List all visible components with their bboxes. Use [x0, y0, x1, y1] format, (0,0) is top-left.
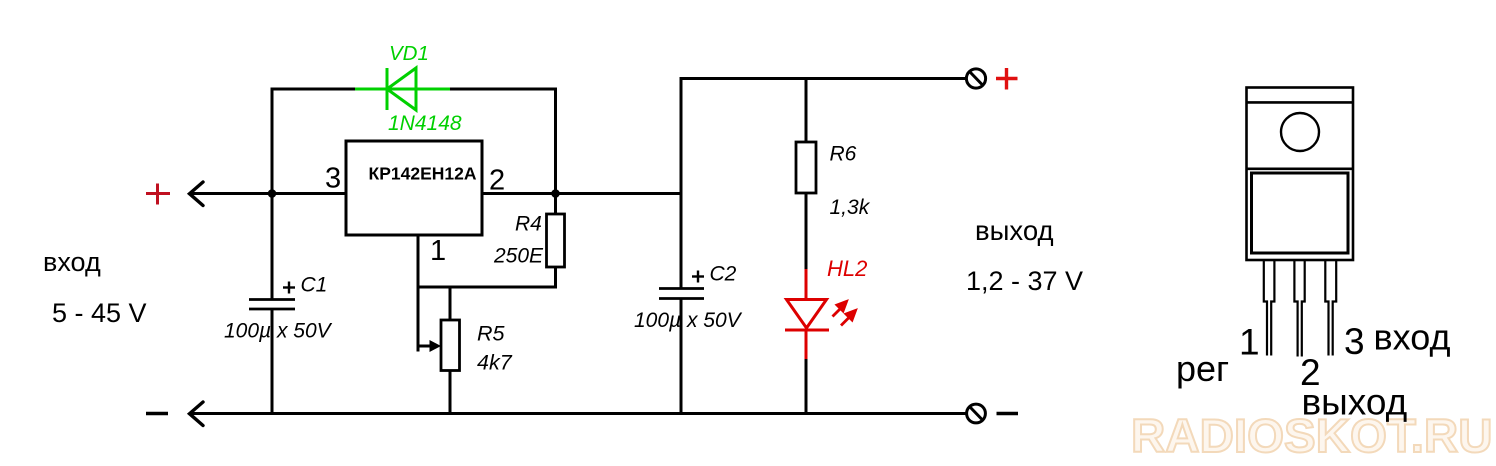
svg-text:R6: R6: [830, 143, 857, 166]
wire: R5 top lead: [449, 287, 452, 321]
wire: adjust rail horizontal: [418, 286, 557, 289]
wire: pin 1 drop: [417, 235, 420, 352]
LED HL2: [785, 300, 829, 331]
capacitor C1: [249, 300, 295, 310]
TO-220 package outline: [1247, 88, 1354, 261]
svg-text:100µ x 50V: 100µ x 50V: [224, 320, 333, 343]
output minus sign: [997, 412, 1019, 415]
wire: input arrow: [190, 182, 204, 206]
wire: diode top rail right segment: [450, 88, 557, 91]
svg-text:КР142ЕН12А: КР142ЕН12А: [369, 164, 477, 184]
svg-text:выход: выход: [975, 215, 1054, 246]
LED HL2 anode lead: [805, 269, 808, 299]
wire: junction to R4: [554, 194, 557, 216]
svg-text:3: 3: [325, 163, 341, 195]
TO-220 leg 1: [1264, 260, 1275, 356]
wire: R6 bottom lead: [805, 193, 808, 270]
TO-220 body inner rect: [1252, 173, 1349, 253]
TO-220 leg 3: [1325, 260, 1336, 356]
C2 polarity plus: [692, 271, 704, 283]
svg-text:2: 2: [489, 165, 505, 197]
node A junction dot left: [268, 189, 277, 198]
wire: pin 2 rail to C2: [482, 192, 681, 195]
svg-text:1N4148: 1N4148: [388, 112, 462, 135]
wire: bottom rail: [190, 412, 967, 415]
node: input plus terminal: [146, 184, 170, 205]
svg-text:HL2: HL2: [827, 256, 867, 281]
TO-220 tab top strip line: [1247, 101, 1354, 104]
op-amp U1: regulator IC box KP142EH12A: [346, 141, 482, 235]
svg-text:5 - 45 V: 5 - 45 V: [52, 298, 147, 328]
svg-text:1,3k: 1,3k: [830, 196, 871, 219]
svg-text:250Е: 250Е: [493, 245, 544, 268]
svg-text:3: 3: [1344, 321, 1365, 362]
capacitor C2: [659, 289, 704, 299]
svg-text:C1: C1: [301, 274, 328, 297]
svg-text:4k7: 4k7: [477, 351, 513, 375]
TO-220 tab/body boundary: [1247, 168, 1354, 171]
LED HL2 cathode lead black part: [805, 359, 808, 414]
capacitor C1 bottom lead: [271, 309, 274, 414]
wiper arrow of R5: [418, 345, 433, 348]
output minus terminal circle: [967, 404, 986, 423]
resistor R6: [796, 142, 816, 193]
svg-text:выход: выход: [1302, 382, 1408, 423]
wire: bottom rail arrow: [190, 402, 204, 426]
wire: input rail to pin 3: [190, 192, 347, 195]
LED emission arrow 1: [833, 302, 847, 317]
wire: R5 bottom lead: [449, 370, 452, 414]
svg-text:R4: R4: [515, 213, 542, 236]
capacitor C2 top lead: [680, 77, 683, 288]
wire: right riser from diode to pin 2 rail: [554, 88, 557, 194]
LED emission arrow 2: [841, 311, 856, 326]
svg-text:вход: вход: [1374, 317, 1451, 358]
svg-text:100µ x 50V: 100µ x 50V: [634, 309, 743, 332]
C1 polarity plus: [283, 282, 295, 294]
wire: R6 top lead: [805, 79, 808, 144]
TO-220 leg 2: [1294, 260, 1304, 357]
svg-text:VD1: VD1: [389, 42, 429, 65]
capacitor C2 bottom lead: [680, 299, 683, 414]
node B junction dot right: [551, 189, 560, 198]
TO-220 mounting hole: [1281, 113, 1319, 151]
output plus sign: [996, 68, 1018, 90]
svg-text:рег: рег: [1176, 348, 1229, 389]
LED HL2 cathode lead red part: [805, 330, 808, 360]
wire: left riser to diode: [271, 88, 274, 194]
diode VD1: [355, 68, 450, 110]
resistor R4: [547, 214, 565, 267]
node: input minus sign: [146, 412, 168, 415]
svg-text:1: 1: [430, 235, 446, 267]
capacitor C1 top lead: [271, 194, 274, 300]
potentiometer R5: [441, 320, 460, 371]
wire: output top rail: [681, 77, 966, 80]
wire: R4 bottom to adjust rail: [554, 267, 557, 287]
wire: diode top rail left segment: [271, 88, 357, 91]
svg-text:C2: C2: [710, 263, 737, 286]
svg-text:R5: R5: [477, 322, 506, 346]
svg-text:1: 1: [1239, 322, 1260, 363]
svg-text:вход: вход: [43, 247, 101, 277]
svg-text:1,2 - 37 V: 1,2 - 37 V: [966, 266, 1083, 296]
output plus terminal circle: [966, 69, 985, 88]
